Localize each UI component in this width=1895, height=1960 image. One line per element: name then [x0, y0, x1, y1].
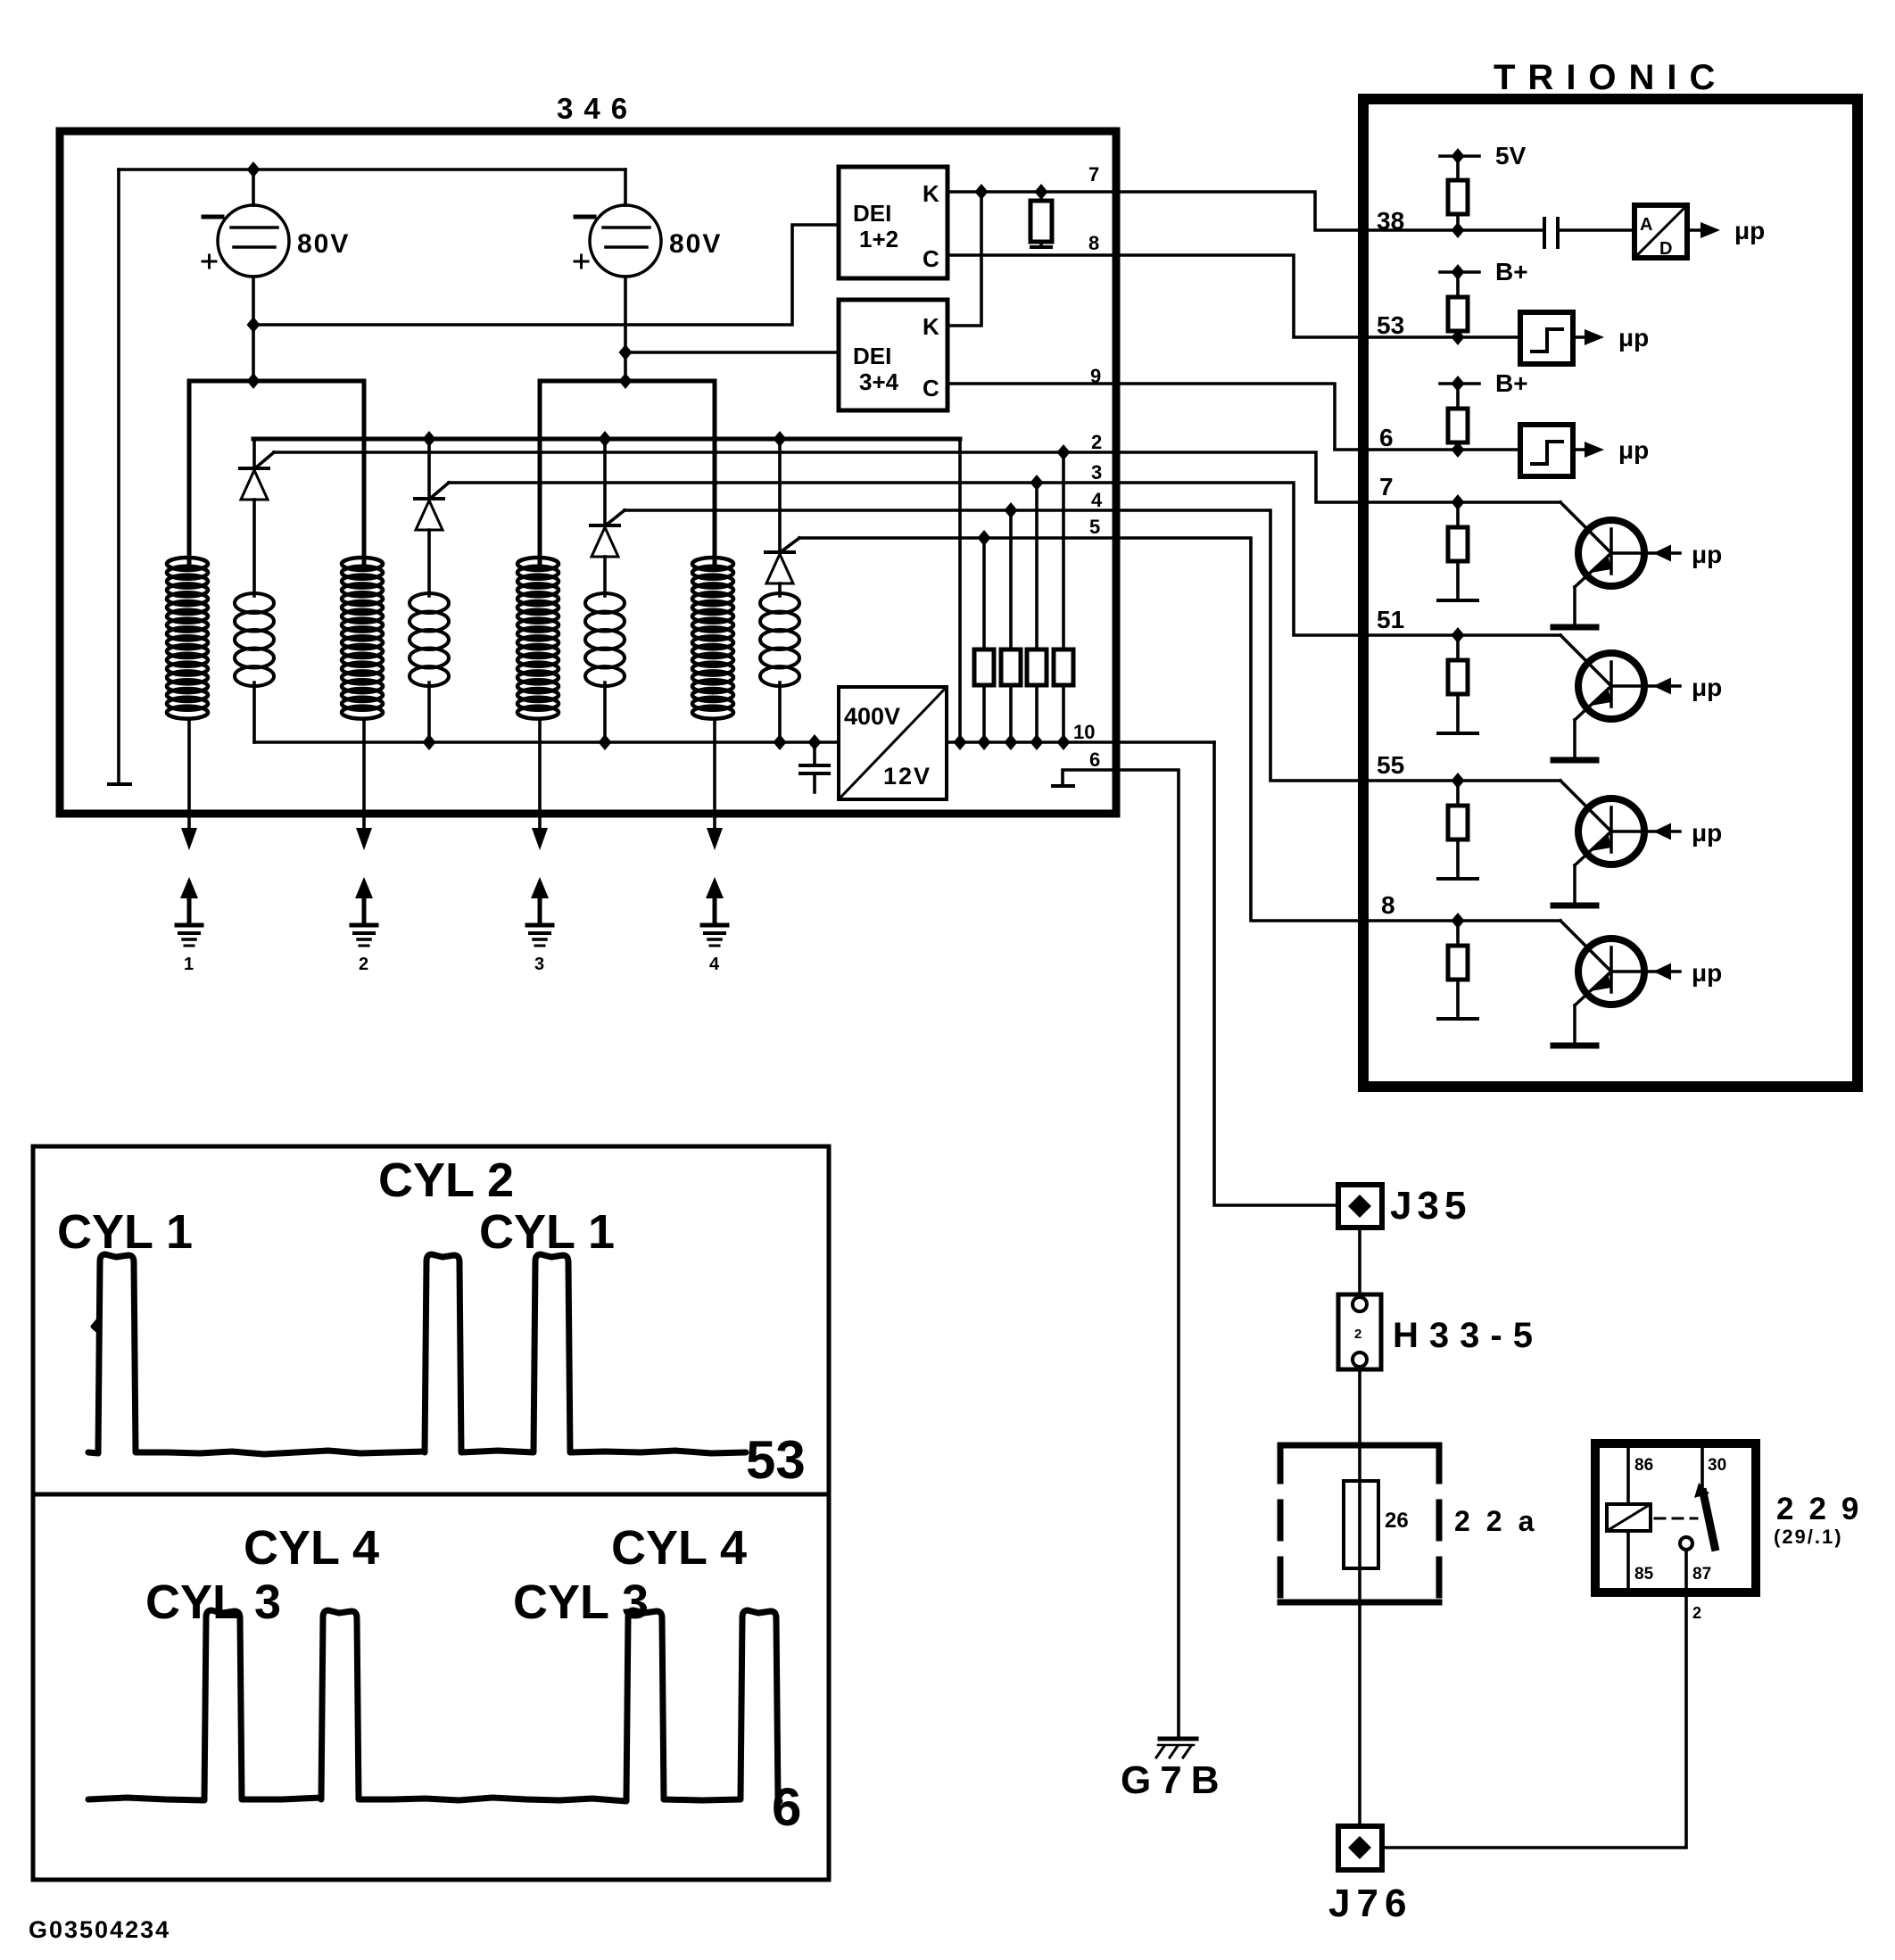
converter box 400V/12V	[839, 687, 947, 799]
svg-text:6: 6	[1089, 748, 1100, 771]
wire pin7 to Trionic 38	[1118, 192, 1363, 230]
resistor gate pulldown R5	[974, 649, 994, 685]
spark plug 2 ground	[352, 923, 377, 928]
arrow HT output cyl 1	[181, 828, 197, 850]
ground G7B symbol	[1160, 1737, 1196, 1741]
svg-text:87: 87	[1692, 1565, 1711, 1584]
svg-text:5V: 5V	[1495, 142, 1527, 170]
wire T4 secondary bottom	[713, 719, 716, 828]
node rail drop junction	[954, 734, 967, 750]
node 400V rail SCR4	[774, 431, 787, 447]
voltage source 80V (cyl 3+4)	[590, 205, 661, 277]
fuse 26	[1344, 1481, 1378, 1568]
svg-text:B+: B+	[1495, 258, 1528, 285]
svg-text:30: 30	[1708, 1456, 1726, 1475]
wire left branch down	[117, 170, 120, 782]
svg-text:A: A	[1640, 215, 1652, 235]
svg-text:8: 8	[1381, 891, 1395, 919]
svg-text:μp: μp	[1692, 674, 1722, 701]
svg-text:J35: J35	[1390, 1184, 1471, 1228]
wire SCR3 cathode	[603, 439, 607, 525]
svg-text:4: 4	[1091, 489, 1103, 511]
wire source1 top lead	[252, 170, 255, 205]
svg-text:1+2: 1+2	[859, 226, 898, 252]
resistor gate pulldown R2	[1054, 649, 1073, 685]
svg-text:μp: μp	[1692, 819, 1722, 847]
spark plug 4 arrow	[706, 877, 724, 898]
relay 229 border	[1595, 1443, 1756, 1592]
capacitor smoothing	[813, 742, 816, 764]
svg-text:G03504234: G03504234	[29, 1916, 170, 1943]
node pin51 junction	[1452, 627, 1465, 643]
node primary2 bottom	[423, 734, 436, 750]
svg-text:G7B: G7B	[1121, 1758, 1228, 1802]
plus sign source2	[575, 255, 588, 268]
svg-text:μp: μp	[1692, 541, 1722, 568]
amplifier module DEI 1+2	[839, 167, 947, 278]
spark plug 2 arrow	[355, 877, 373, 898]
node pulldown4 bottom	[1005, 734, 1018, 750]
wire pin10 to J35	[1214, 742, 1338, 1205]
thyristor SCR3	[591, 524, 619, 527]
node pin7 junction	[1452, 494, 1465, 510]
schmitt trigger 6	[1520, 425, 1573, 476]
wire DEI3+4 K riser	[947, 192, 981, 326]
arrow schmitt53 to uP	[1573, 335, 1585, 339]
spark plug 4 ground	[702, 923, 727, 928]
spark plug 3 arrow	[531, 877, 549, 898]
svg-text:B+: B+	[1495, 369, 1528, 397]
wire gate pulldown drop 5	[982, 538, 986, 649]
schmitt trigger 53	[1520, 312, 1573, 364]
node capacitor junction	[808, 734, 822, 750]
resistor gate pulldown R3	[1027, 649, 1047, 685]
node top-rail junction	[247, 161, 261, 178]
wire supply rail cyl3-4	[540, 379, 715, 384]
relay coil lead bottom	[1626, 1531, 1630, 1587]
wire cap to A/D	[1558, 228, 1634, 232]
wire T3 primary bottom	[603, 682, 607, 742]
node pulldown5 bottom	[978, 734, 991, 750]
connector J35	[1338, 1185, 1382, 1228]
svg-text:80V: 80V	[297, 229, 350, 259]
waveform trace 53	[88, 1254, 746, 1454]
svg-text:CYL 4: CYL 4	[611, 1521, 747, 1575]
wire pin 7 line	[1363, 500, 1560, 504]
svg-text:10: 10	[1073, 721, 1095, 743]
spark plug 3 ground	[527, 923, 552, 928]
node source1 bottom	[247, 317, 261, 333]
transistor driver pin 51	[1456, 635, 1460, 660]
svg-text:26: 26	[1385, 1509, 1409, 1533]
ECU box 346 border	[60, 131, 1116, 814]
wire T1 primary bottom	[252, 682, 256, 742]
wire pin10 rail left	[254, 740, 839, 744]
svg-text:346: 346	[557, 92, 638, 125]
svg-text:CYL 1: CYL 1	[479, 1205, 615, 1259]
svg-text:5: 5	[1089, 516, 1100, 538]
wire T2 primary bottom	[427, 682, 431, 742]
svg-text:85: 85	[1634, 1565, 1654, 1584]
terminator pin6 ground	[1053, 784, 1073, 788]
wire pulldown R5 bottom lead	[982, 685, 986, 742]
svg-text:K: K	[923, 180, 939, 207]
ignition coil T3 primary winding	[585, 593, 625, 686]
ignition coil T4 secondary winding	[692, 558, 733, 719]
wire SCR1 cathode	[252, 439, 256, 468]
relay switch pivot	[1680, 1537, 1692, 1550]
wire SCR4 cathode	[778, 439, 782, 552]
svg-text:DEI: DEI	[853, 200, 891, 227]
wire pulldown R2 bottom lead	[1062, 685, 1065, 742]
svg-text:CYL 2: CYL 2	[378, 1154, 514, 1207]
minus sign source1	[203, 215, 222, 219]
wire SCR3 gate lead	[607, 510, 625, 525]
fuse holder H33-5	[1338, 1294, 1381, 1369]
wire source2 bottom lead	[624, 277, 627, 381]
A/D converter box	[1634, 205, 1687, 258]
wire 400V rail drop	[958, 439, 962, 742]
node pin38 junction	[1452, 222, 1465, 238]
svg-text:μp: μp	[1618, 436, 1649, 464]
wire DEI1+2 C to pin 8	[947, 253, 1118, 257]
wire T1 secondary bottom	[187, 719, 191, 828]
wire supply rail cyl1-2	[189, 379, 364, 384]
node gate rail 2 junction	[1057, 444, 1071, 460]
ignition coil T3 secondary winding	[517, 558, 559, 719]
svg-text:μp: μp	[1734, 217, 1765, 244]
svg-text:7: 7	[1379, 473, 1394, 500]
ignition coil T4 primary winding	[760, 593, 799, 686]
wire pin 6	[1363, 448, 1520, 451]
wire gate rail pin 2	[274, 451, 1118, 454]
wire pin6 to ground G7B	[1118, 770, 1179, 1738]
wire J35 to H33-5	[1358, 1228, 1361, 1294]
node 400V rail SCR3	[599, 431, 612, 447]
junction box 22a border	[1280, 1443, 1439, 1449]
plus sign source1	[203, 255, 216, 268]
wire gate pulldown drop 2	[1062, 452, 1065, 649]
svg-text:80V: 80V	[669, 229, 722, 259]
ignition coil T2 primary winding	[410, 593, 449, 686]
node pin53 junction	[1452, 329, 1465, 345]
wire gate pulldown drop 3	[1035, 483, 1039, 649]
node B+ 6	[1452, 376, 1465, 392]
wire pin 55 line	[1363, 779, 1560, 782]
svg-text:3: 3	[534, 955, 544, 974]
svg-text:229: 229	[1776, 1492, 1874, 1526]
transistor driver pin 8	[1456, 921, 1460, 946]
transistor driver pin 55	[1456, 781, 1460, 806]
node source2 bottom	[619, 344, 633, 360]
wire top rail	[119, 168, 625, 171]
wire through 22a	[1358, 1445, 1361, 1602]
wire pin5 to Trionic 8	[1118, 538, 1363, 921]
wire pin 51 line	[1363, 633, 1560, 637]
svg-text:6: 6	[1379, 424, 1394, 451]
resistor feedback (pins 7-8)	[1039, 192, 1043, 201]
node B+ 53	[1452, 264, 1465, 280]
relay pin30 lead	[1701, 1449, 1704, 1487]
node primary4 bottom	[774, 734, 787, 750]
node pin6 junction	[1452, 442, 1465, 458]
svg-text:J76: J76	[1328, 1881, 1412, 1925]
wire B+ stub 6	[1440, 382, 1479, 385]
wire pulldown R3 bottom lead	[1035, 685, 1039, 742]
relay coil	[1607, 1504, 1651, 1531]
svg-text:CYL 1: CYL 1	[57, 1205, 193, 1259]
svg-text:2: 2	[1692, 1604, 1701, 1622]
node primary3 bottom	[599, 734, 612, 750]
trigger notch on waveform 53	[93, 1320, 99, 1332]
svg-text:12V: 12V	[883, 763, 931, 790]
svg-text:μp: μp	[1692, 959, 1722, 987]
arrow HT output cyl 4	[707, 828, 723, 850]
arrow HT output cyl 3	[532, 828, 548, 850]
wire J76 to relay 229	[1382, 1550, 1686, 1848]
wire H33-5 to 22a	[1358, 1369, 1361, 1445]
svg-text:CYL 3: CYL 3	[145, 1575, 281, 1629]
svg-text:38: 38	[1377, 207, 1404, 235]
connector J76	[1338, 1826, 1382, 1870]
wire pulldown R4 bottom lead	[1009, 685, 1013, 742]
wire source2 to DEI 3+4 input	[625, 351, 839, 354]
svg-text:22a: 22a	[1454, 1505, 1550, 1537]
transistor driver pin 7	[1456, 502, 1460, 527]
wire pin4 to Trionic 55	[1118, 510, 1363, 781]
wire B+ stub 53	[1440, 270, 1479, 274]
svg-text:3+4: 3+4	[859, 368, 899, 395]
svg-text:μp: μp	[1618, 324, 1649, 351]
waveform trace 6	[88, 1610, 780, 1801]
wire SCR1 gate lead	[256, 452, 274, 467]
arrow schmitt6 to uP	[1573, 448, 1585, 451]
node rail1 junction	[247, 373, 261, 389]
wire DEI1+2 K to pin 7	[947, 190, 1118, 194]
wire SCR3 anode	[603, 557, 607, 596]
svg-text:2: 2	[1091, 431, 1102, 453]
svg-text:D: D	[1659, 239, 1672, 259]
arrow HT output cyl 2	[356, 828, 372, 850]
wire pin 38	[1363, 228, 1543, 232]
spark plug 1 ground	[177, 923, 202, 928]
wire SCR2 cathode	[427, 439, 431, 499]
node pin8 junction	[1452, 913, 1465, 929]
wire gate rail pin 4	[625, 509, 1118, 512]
svg-text:TRIONIC: TRIONIC	[1494, 58, 1727, 97]
wire SCR1 anode	[252, 500, 256, 596]
relay coil lead top	[1626, 1449, 1630, 1504]
svg-text:9: 9	[1090, 365, 1101, 387]
wire source1 bottom lead	[252, 277, 255, 381]
wire gate pulldown drop 4	[1009, 510, 1013, 649]
resistor pullup 53	[1456, 272, 1460, 297]
ignition coil T2 secondary winding	[342, 558, 383, 719]
node gate rail 4 junction	[1005, 502, 1018, 518]
svg-text:K: K	[923, 313, 939, 340]
wire pin 8 line	[1363, 919, 1560, 922]
wire SCR2 gate lead	[431, 483, 449, 498]
svg-text:1: 1	[184, 955, 194, 974]
svg-text:8: 8	[1088, 232, 1099, 254]
relay actuation dashed link	[1655, 1518, 1697, 1520]
wire pin 53	[1363, 335, 1520, 339]
svg-text:CYL 4: CYL 4	[244, 1521, 379, 1575]
svg-text:53: 53	[746, 1430, 806, 1490]
node gate rail 3 junction	[1030, 475, 1044, 491]
svg-text:(29/.1): (29/.1)	[1774, 1526, 1843, 1548]
node resistor top junction	[1035, 184, 1048, 200]
wire 400V rail	[253, 437, 960, 442]
thyristor SCR4	[765, 550, 794, 554]
svg-text:H33-5: H33-5	[1393, 1316, 1543, 1355]
wire DEI3+4 C to pin 9	[947, 382, 1118, 385]
wire rail1 to T2 secondary	[362, 381, 367, 564]
svg-text:3: 3	[1091, 461, 1102, 484]
wire rail2 to T4 secondary	[713, 381, 717, 564]
relay switch blade	[1703, 1493, 1715, 1547]
svg-text:C: C	[923, 245, 939, 272]
ignition coil T1 secondary winding	[167, 558, 208, 719]
svg-text:53: 53	[1377, 311, 1404, 339]
svg-text:2: 2	[359, 955, 368, 974]
resistor pullup 6	[1456, 384, 1460, 409]
node 5V	[1452, 148, 1465, 164]
voltage source 80V (cyl 1+2)	[218, 205, 289, 277]
wire rail2 to T3 secondary	[538, 381, 542, 564]
node 400V rail SCR2	[423, 431, 436, 447]
ECU box TRIONIC border	[1363, 99, 1858, 1087]
svg-text:DEI: DEI	[853, 343, 891, 369]
wire pin6 internal	[1063, 770, 1118, 784]
arrow A/D to uP	[1687, 228, 1701, 232]
node rail2 junction	[619, 373, 633, 389]
node K junction	[975, 184, 989, 200]
wire 5V stub	[1440, 154, 1479, 158]
svg-text:C: C	[923, 375, 939, 401]
wire SCR2 anode	[427, 530, 431, 596]
wire pin8 to Trionic 53	[1118, 255, 1363, 337]
wire gate rail pin 3	[449, 481, 1118, 484]
terminator resistor bottom	[1031, 245, 1051, 249]
wire rail1 to T1 secondary	[187, 381, 192, 564]
node pulldown2 bottom	[1057, 734, 1071, 750]
svg-text:400V: 400V	[844, 703, 900, 730]
node gate rail 5 junction	[978, 530, 991, 546]
oscilloscope box	[33, 1146, 829, 1880]
node pin55 junction	[1452, 773, 1465, 789]
wire source2 top lead	[624, 170, 627, 205]
svg-text:4: 4	[709, 955, 720, 974]
thyristor SCR1	[240, 467, 269, 470]
node pulldown3 bottom	[1030, 734, 1044, 750]
svg-text:7: 7	[1088, 163, 1099, 186]
resistor pullup 38	[1456, 156, 1460, 180]
wire pin3 to Trionic 51	[1118, 483, 1363, 635]
wire T4 primary bottom	[778, 682, 782, 742]
capacitor coupling	[1543, 219, 1546, 247]
wire pin10 rail right	[947, 740, 1214, 744]
wire pin2 to Trionic 7	[1118, 452, 1363, 502]
wire SCR4 gate lead	[782, 538, 799, 551]
thyristor SCR2	[415, 497, 443, 500]
svg-text:2: 2	[1354, 1327, 1361, 1342]
terminator left branch	[109, 782, 130, 786]
spark plug 1 arrow	[180, 877, 198, 898]
wire gate rail pin 5	[799, 536, 1118, 540]
wire SCR4 anode	[778, 583, 782, 596]
minus sign source2	[575, 215, 594, 219]
wire source1 to DEI 1+2 input	[253, 225, 839, 325]
svg-text:55: 55	[1377, 751, 1404, 779]
resistor gate pulldown R4	[1001, 649, 1021, 685]
wire T3 secondary bottom	[538, 719, 542, 828]
svg-text:51: 51	[1377, 606, 1404, 633]
svg-text:86: 86	[1634, 1456, 1653, 1475]
wire pin9 to Trionic 6	[1118, 384, 1363, 450]
wire 22a to J76	[1358, 1602, 1361, 1826]
wire T2 secondary bottom	[362, 719, 366, 828]
amplifier module DEI 3+4	[839, 300, 947, 410]
ignition coil T1 primary winding	[235, 593, 274, 686]
